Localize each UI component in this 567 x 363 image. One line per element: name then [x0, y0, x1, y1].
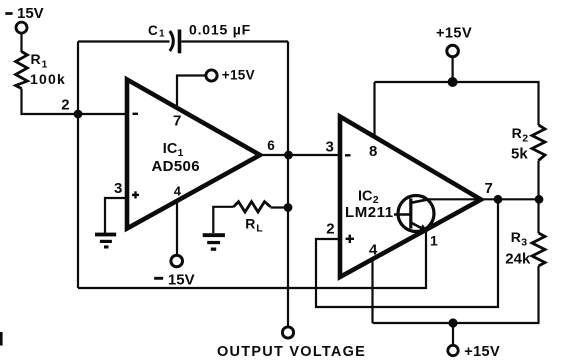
ground G1	[95, 233, 116, 249]
ground G2 stem and wire to RL	[213, 207, 233, 233]
resistor R2	[532, 125, 545, 161]
plus sign IC2	[346, 238, 354, 240]
wire RL to output column	[271, 206, 289, 208]
wire terminal to R1	[20, 33, 22, 52]
label -15V IC1	[154, 277, 163, 280]
capacitor C1	[170, 31, 174, 51]
pin 4 wire IC2	[371, 259, 373, 323]
terminal +15V IC1	[206, 70, 217, 81]
svg-text:1: 1	[42, 59, 48, 71]
resistor R1	[16, 52, 28, 89]
svg-text:R: R	[245, 216, 255, 232]
terminal -15V IC1	[171, 255, 183, 267]
svg-text:OUTPUT VOLTAGE: OUTPUT VOLTAGE	[217, 344, 366, 360]
wire top feedback left segment	[78, 40, 170, 42]
svg-text:R: R	[511, 229, 521, 245]
terminal OUTPUT VOLTAGE	[282, 327, 293, 338]
svg-text:L: L	[256, 223, 263, 235]
pin 7 wire IC1	[177, 76, 206, 108]
svg-text:6: 6	[267, 138, 275, 153]
transistor emitter arrowhead	[419, 224, 428, 231]
transistor base bar	[409, 199, 412, 229]
node RL output dot	[284, 203, 293, 212]
node pin7 feedback dot	[494, 195, 503, 204]
label -15V top-left	[5, 12, 12, 15]
svg-text:100k: 100k	[30, 71, 66, 87]
svg-text:7: 7	[173, 113, 181, 130]
transistor emitter lead	[411, 223, 427, 232]
svg-text:+15V: +15V	[464, 344, 500, 360]
svg-text:3: 3	[114, 180, 122, 197]
svg-text:LM211: LM211	[345, 204, 394, 221]
node 2 dot	[74, 110, 83, 119]
svg-text:7: 7	[485, 180, 493, 197]
pin 4 wire IC1	[176, 201, 178, 255]
comparator IC2 triangle	[340, 117, 481, 278]
plus sign IC1	[132, 194, 139, 196]
svg-text:R: R	[512, 125, 522, 141]
transistor Q inside IC2 circle	[398, 196, 434, 232]
minus sign IC1	[133, 113, 139, 115]
svg-text:24k: 24k	[505, 251, 531, 268]
minus sign IC2	[345, 154, 351, 156]
terminal +15V bottom right	[448, 345, 458, 355]
terminal -15V top-left	[16, 22, 27, 33]
wire node2 column vertical	[77, 42, 79, 289]
svg-text:1: 1	[159, 29, 165, 40]
transistor collector lead	[411, 199, 429, 203]
svg-text:5k: 5k	[511, 145, 528, 162]
svg-text:R: R	[31, 51, 41, 67]
svg-text:4: 4	[369, 242, 378, 259]
svg-text:2: 2	[61, 97, 69, 114]
transistor base lead	[394, 213, 411, 215]
svg-text:4: 4	[174, 183, 182, 198]
svg-text:AD506: AD506	[152, 158, 200, 175]
svg-text:IC: IC	[358, 189, 373, 205]
pin 8 wire IC2	[373, 82, 375, 137]
svg-text:0.015 µF: 0.015 µF	[189, 22, 251, 38]
wire R2 to output row	[537, 161, 539, 200]
wire bottom +15V stub	[452, 323, 454, 346]
wire IC2 output row pin 7	[429, 198, 540, 200]
svg-text:+15V: +15V	[436, 25, 472, 41]
+15V rail top right	[375, 82, 539, 125]
svg-text:15V: 15V	[17, 5, 44, 22]
pin 1 wire emitter to bottom feedback	[78, 230, 426, 289]
wire output column vertical	[287, 42, 289, 328]
wire R3 to bottom rail	[373, 266, 539, 323]
wire top feedback right segment	[181, 40, 288, 42]
svg-text:15V: 15V	[168, 272, 195, 289]
wire R3 top	[537, 199, 539, 233]
svg-text:3: 3	[326, 139, 334, 156]
terminal +15V top right	[447, 45, 459, 57]
resistor RL	[234, 202, 271, 212]
ground G2	[203, 233, 225, 251]
svg-text:1: 1	[178, 147, 184, 159]
wire +15V stub	[452, 57, 454, 82]
node R2 R3 dot	[535, 195, 544, 204]
svg-text:2: 2	[522, 132, 528, 144]
svg-text:1: 1	[430, 233, 438, 249]
resistor R3	[532, 233, 545, 266]
svg-text:C: C	[148, 23, 158, 38]
wire R1 to node 2	[22, 89, 128, 115]
op-amp IC1 triangle	[127, 80, 260, 229]
svg-text:IC: IC	[163, 141, 178, 157]
svg-text:3: 3	[521, 237, 527, 249]
node IC1 output dot	[284, 151, 293, 160]
page edge mark	[0, 332, 3, 346]
svg-text:2: 2	[326, 221, 334, 238]
wire IC1 output row	[260, 154, 340, 156]
pin 2 wire IC2 to pin7 node	[316, 199, 498, 307]
pin 3 wire IC1 to ground	[105, 198, 127, 233]
svg-text:+15V: +15V	[222, 68, 255, 83]
svg-text:8: 8	[369, 143, 377, 160]
node +15V rail dot	[448, 77, 458, 87]
node bottom +15V dot	[448, 318, 457, 327]
